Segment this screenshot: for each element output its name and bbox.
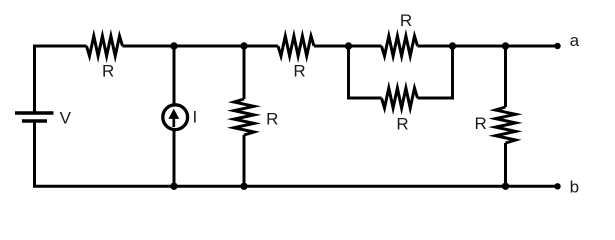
wire right resistor top stub bbox=[504, 46, 507, 107]
wire middle resistor bottom stub bbox=[243, 135, 246, 186]
parallel loop right branch wire bbox=[418, 46, 453, 98]
wire current source top stub bbox=[173, 46, 176, 105]
resistor R3 (parallel pair, top) bbox=[382, 36, 418, 56]
svg-text:R: R bbox=[293, 62, 305, 81]
current source I1 arrow head bbox=[168, 109, 179, 119]
junction node (174,186) bbox=[170, 183, 177, 190]
junction node (174,46) bbox=[170, 42, 177, 49]
junction node (244,186) bbox=[240, 183, 247, 190]
wire right resistor bottom stub bbox=[504, 143, 507, 186]
junction node (452.5,46) bbox=[449, 42, 456, 49]
svg-text:a: a bbox=[570, 31, 580, 50]
svg-text:V: V bbox=[60, 109, 72, 128]
resistor R2 (second horizontal) bbox=[278, 36, 314, 56]
svg-text:R: R bbox=[400, 11, 412, 30]
svg-text:R: R bbox=[475, 114, 487, 133]
battery V1 short plate bbox=[22, 119, 47, 122]
wire top: R2 to parallel section bbox=[314, 45, 382, 48]
wire top: parallel section to terminal a bbox=[418, 45, 558, 48]
svg-text:R: R bbox=[102, 62, 114, 81]
svg-text:b: b bbox=[570, 177, 579, 196]
junction node (348.5,46) bbox=[345, 42, 352, 49]
terminal a dot bbox=[554, 43, 560, 49]
wire top-left: battery top to top-left corner to R1 bbox=[35, 46, 87, 113]
terminal b dot bbox=[554, 183, 560, 189]
parallel loop left branch wire bbox=[349, 46, 382, 98]
wire bottom rail: battery bottom along bottom to terminal b bbox=[35, 121, 558, 186]
resistor R4 (middle vertical) bbox=[234, 99, 254, 135]
wire middle resistor top stub bbox=[243, 46, 246, 99]
junction node (505,186) bbox=[502, 183, 509, 190]
svg-text:R: R bbox=[266, 109, 278, 128]
resistor R1 (top left horizontal) bbox=[87, 36, 123, 56]
current source I1 arrow shaft bbox=[172, 114, 175, 127]
junction node (505,46) bbox=[502, 42, 509, 49]
resistor R5 (parallel pair, bottom) bbox=[382, 88, 418, 108]
svg-text:I: I bbox=[193, 108, 198, 127]
svg-text:R: R bbox=[396, 115, 408, 134]
junction node (244,46) bbox=[240, 42, 247, 49]
resistor R6 (right vertical) bbox=[496, 107, 516, 143]
wire current source bottom stub bbox=[173, 130, 176, 187]
current source I1 circle bbox=[163, 105, 188, 130]
wire top: R1 to R2 bbox=[123, 45, 279, 48]
battery V1 long plate bbox=[15, 111, 54, 114]
